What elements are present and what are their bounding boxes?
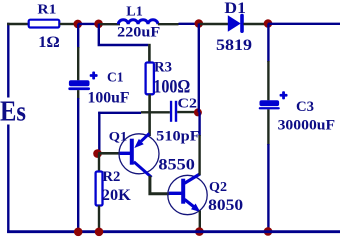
svg-text:Q1: Q1	[109, 129, 128, 143]
node junction dot A	[74, 20, 83, 29]
node junction dot D	[264, 19, 273, 28]
resistor R2	[96, 169, 132, 205]
wire left vertical top	[7, 23, 9, 98]
wire C1 branch lower	[77, 90, 79, 233]
node junction dot C	[195, 19, 204, 28]
svg-text:Q2: Q2	[209, 179, 227, 194]
wire B down and across to R3	[98, 24, 150, 63]
wire top rail output	[268, 23, 340, 25]
capacitor C3	[259, 91, 335, 133]
resistor R3	[146, 60, 191, 98]
svg-text:510pF: 510pF	[156, 128, 200, 144]
inductor L1	[117, 4, 160, 40]
node junction dot E	[194, 108, 202, 116]
wire R2 bottom lead	[98, 206, 100, 233]
wire top rail A to B	[78, 23, 99, 25]
svg-text:1Ω: 1Ω	[38, 34, 60, 51]
wire Q2 emitter to ground rail	[199, 211, 201, 233]
svg-text:100uF: 100uF	[88, 89, 130, 106]
wire C node down to E and Q2 collector	[198, 24, 201, 176]
node junction dot G	[195, 227, 204, 236]
wire C2 right lead	[177, 111, 196, 113]
wire left vertical bottom	[7, 125, 9, 233]
svg-text:220uF: 220uF	[117, 25, 160, 41]
transistor Q1	[109, 129, 195, 177]
wire B to L1	[99, 23, 120, 25]
wire Q1 collector to Q2 base	[150, 176, 169, 194]
resistor R1	[29, 3, 60, 51]
wire top rail R1 left lead	[7, 23, 28, 25]
svg-text:100Ω: 100Ω	[153, 77, 190, 97]
wire L1 to node C	[158, 23, 195, 26]
capacitor C2	[156, 96, 200, 145]
node junction dot I	[74, 228, 83, 237]
wire D1 cathode to node D	[243, 23, 264, 25]
svg-text:C2: C2	[178, 96, 198, 111]
wire Q1 base lead	[98, 152, 120, 155]
wire R2 branch	[98, 154, 100, 172]
node junction dot B	[94, 20, 103, 29]
transistor Q2	[168, 174, 243, 215]
wire bottom rail	[7, 230, 340, 233]
svg-text:R3: R3	[154, 60, 172, 76]
svg-text:8550: 8550	[158, 156, 195, 173]
svg-text:5819: 5819	[216, 37, 252, 54]
node Es label	[0, 96, 26, 128]
svg-text:R2: R2	[102, 169, 120, 185]
wire C to D1 anode	[199, 23, 228, 25]
svg-text:Es: Es	[0, 96, 26, 128]
wire C3 branch upper	[267, 24, 269, 101]
wire C1 branch upper	[77, 24, 79, 80]
wire R3 bottom to Q1 emitter	[148, 94, 151, 136]
svg-text:20K: 20K	[102, 187, 132, 204]
svg-text:L1: L1	[126, 4, 143, 19]
node junction dot H	[264, 227, 273, 236]
svg-text:C3: C3	[296, 99, 314, 115]
wire C3 branch lower	[267, 109, 269, 231]
node junction dot J	[95, 228, 104, 237]
wire C2 feed line	[98, 112, 170, 154]
capacitor C1	[68, 70, 129, 106]
svg-text:D1: D1	[224, 0, 246, 17]
svg-text:R1: R1	[37, 3, 56, 18]
wire R1 right lead	[60, 23, 76, 25]
svg-text:8050: 8050	[208, 197, 243, 214]
diode D1	[216, 0, 252, 54]
svg-text:30000uF: 30000uF	[278, 118, 336, 134]
node junction dot F Q1 base	[93, 149, 102, 158]
svg-text:C1: C1	[107, 70, 124, 85]
